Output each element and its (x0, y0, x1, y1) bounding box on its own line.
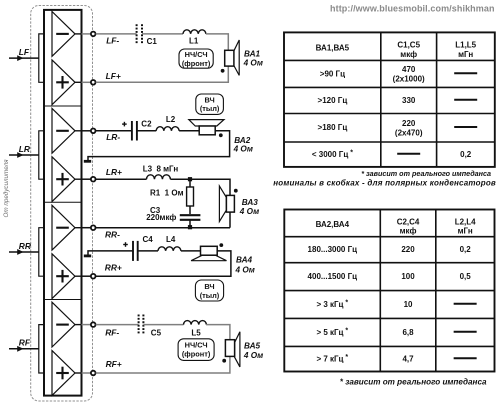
wire BA5 to RF+ (96, 356, 230, 373)
speaker BA3 (midbass, cone left) (219, 186, 234, 222)
output terminal RF- (91, 322, 96, 327)
speaker BA1 (225, 40, 240, 75)
wire C3 to RR- junction (189, 220, 191, 228)
svg-text:220: 220 (401, 245, 415, 254)
inductor L1 (183, 30, 206, 34)
op-amp A4 (LR+) (52, 157, 91, 202)
label BA3 4 Ohm (239, 198, 259, 216)
svg-text:100: 100 (401, 272, 415, 281)
svg-text:180...3000 Гц: 180...3000 Гц (308, 245, 358, 254)
svg-text:220: 220 (402, 119, 416, 128)
svg-text:6,8: 6,8 (402, 328, 414, 337)
wire RF- to C5 (96, 324, 139, 326)
svg-text:L1: L1 (189, 37, 199, 46)
svg-text:10: 10 (404, 300, 413, 309)
output terminal LF+ (91, 80, 96, 85)
table 1: front speakers (284, 32, 495, 167)
svg-text:С1,С5: С1,С5 (397, 41, 420, 50)
chassis bar (LR return) (84, 160, 91, 163)
polarity dot BA5 (222, 359, 226, 363)
svg-text:мкф: мкф (400, 50, 417, 59)
svg-text:ВА2,ВА4: ВА2,ВА4 (316, 220, 350, 229)
svg-text:C1: C1 (147, 37, 158, 46)
channel pair divider 1 (44, 105, 82, 107)
svg-text:C5: C5 (151, 328, 162, 337)
label BA2 4 Ohm (233, 136, 253, 154)
svg-text:(фронт): (фронт) (182, 59, 211, 68)
svg-text:LF-: LF- (106, 36, 119, 46)
svg-text:400...1500 Гц: 400...1500 Гц (308, 272, 358, 281)
wire C2 to L2 (137, 130, 156, 132)
svg-text:>90 Гц: >90 Гц (320, 69, 345, 78)
svg-text:(фронт): (фронт) (182, 350, 211, 359)
svg-text:LF+: LF+ (106, 71, 121, 81)
speaker BA5 (cone right) (225, 332, 240, 367)
output terminal RF+ (91, 371, 96, 376)
inductor L3 (147, 175, 171, 179)
svg-text:L2,L4: L2,L4 (455, 217, 476, 226)
svg-text:мГн: мГн (458, 227, 473, 236)
svg-text:номиналы в скобках - для поляр: номиналы в скобках - для полярных конден… (273, 179, 496, 188)
polarity dot BA3 (234, 189, 238, 193)
channel pair divider 3 (44, 299, 82, 301)
output terminal LR- (91, 129, 96, 134)
capacitor C2 polarized (122, 121, 137, 141)
svg-text:L3 8 мГн: L3 8 мГн (143, 165, 179, 174)
annotation box НЧ/СЧ (фронт) front (179, 49, 213, 68)
chassis bar (RR return) (84, 254, 91, 257)
inductor L5 (184, 321, 207, 325)
wire BA2 return to chassis stub (88, 131, 230, 161)
speaker BA4 (tweeter, cone down) (191, 246, 226, 260)
input wire+arrow LF (9, 55, 39, 61)
svg-text:0,5: 0,5 (460, 272, 472, 281)
svg-text:(2x1000): (2x1000) (393, 75, 425, 84)
svg-text:RF-: RF- (105, 328, 119, 338)
wire C1 to L1 (142, 33, 183, 35)
svg-text:НЧ/СЧ: НЧ/СЧ (185, 341, 208, 350)
op-amp A8 (RF+) (52, 351, 91, 396)
svg-text:220мкф: 220мкф (146, 213, 176, 222)
wire L5 to BA5 (206, 325, 230, 340)
wire node A to R1 (189, 179, 191, 187)
wire C4 to L4 (138, 250, 158, 252)
svg-text:330: 330 (402, 96, 416, 105)
wire BA3 to RR- (229, 212, 231, 228)
svg-text:* зависит от реального импедан: * зависит от реального импеданса (340, 377, 487, 386)
svg-text:мГн: мГн (458, 50, 473, 59)
output terminal LR+ (91, 177, 96, 182)
svg-text:4 Ом: 4 Ом (233, 145, 253, 154)
svg-text:RR+: RR+ (105, 263, 122, 273)
output terminal LF- (91, 32, 96, 37)
svg-text:R1 1 Ом: R1 1 Ом (150, 189, 184, 198)
wire LF- to C1 (96, 33, 137, 35)
wire C5 to L5 (143, 324, 183, 326)
junction node B on RR- (188, 225, 192, 229)
svg-text:RR: RR (19, 241, 31, 251)
svg-text:LR: LR (19, 144, 30, 154)
wire L4 to BA4 (181, 250, 201, 252)
svg-text:RF+: RF+ (106, 359, 122, 369)
input bracket RF (39, 325, 44, 373)
annotation box ВЧ (тыл) rear 1 (196, 94, 224, 114)
input bracket LR (39, 131, 44, 179)
svg-text:LR+: LR+ (106, 167, 122, 177)
chassis stub wire (RR) (88, 251, 133, 255)
op-amp A5 (RR-) (52, 205, 91, 250)
svg-text:ВА3: ВА3 (242, 198, 259, 207)
input wire+arrow RR (9, 249, 39, 255)
input wire+arrow LR (9, 152, 39, 158)
wire L3 to BA3 (170, 179, 230, 195)
capacitor C3 (180, 215, 201, 220)
svg-text:4 Ом: 4 Ом (243, 59, 263, 68)
svg-text:L2: L2 (166, 115, 176, 124)
label BA4 4 Ohm (235, 256, 255, 275)
capacitor C4 polarized (123, 241, 138, 261)
svg-text:RF: RF (19, 338, 31, 348)
label C3 220uF (146, 206, 176, 222)
output terminal RR+ (91, 274, 96, 279)
svg-text:4,7: 4,7 (402, 354, 414, 363)
svg-text:4 Ом: 4 Ом (235, 266, 255, 275)
table 2: rear speakers (284, 210, 494, 372)
op-amp A2 (LF+) (52, 60, 91, 105)
wire L2 to BA2 (179, 130, 199, 132)
wire BA1 to LF+ (96, 66, 229, 82)
annotation box ВЧ (тыл) rear 2 (195, 280, 223, 301)
svg-text:>120 Гц: >120 Гц (318, 96, 348, 105)
svg-text:ВА1: ВА1 (244, 49, 261, 58)
polarity dot BA1 (221, 69, 225, 73)
svg-text:470: 470 (402, 65, 416, 74)
capacitor C5 (optional, dashed) (139, 315, 144, 334)
wire BA4 to RR+ (96, 251, 231, 276)
op-amp A7 (RF-) (52, 302, 91, 347)
svg-text:L4: L4 (166, 235, 176, 244)
svg-text:* зависит от реального импедан: * зависит от реального импеданса (361, 169, 491, 178)
input bracket LF (39, 34, 44, 82)
input wire+arrow RF (9, 346, 39, 352)
svg-text:ВА2: ВА2 (234, 136, 251, 145)
inductor L2 (156, 127, 179, 131)
annotation box НЧ/СЧ (фронт) front 2 (178, 339, 214, 361)
polarity dot BA2 (219, 133, 223, 137)
resistor R1 (187, 187, 194, 206)
inductor L4 (158, 247, 181, 251)
svg-text:LR-: LR- (106, 132, 120, 142)
svg-text:4 Ом: 4 Ом (243, 351, 263, 360)
svg-text:RR-: RR- (105, 230, 120, 240)
svg-text:(тыл): (тыл) (200, 291, 220, 300)
svg-text:мкф: мкф (400, 227, 417, 236)
capacitor C1 (optional, dashed) (137, 24, 142, 43)
junction node A (188, 177, 192, 181)
svg-text:ВА4: ВА4 (236, 256, 253, 265)
wire RR- (96, 227, 230, 229)
wire LR+ to L3 (96, 178, 147, 180)
svg-text:http://www.bluesmobil.com/shik: http://www.bluesmobil.com/shikhman (330, 3, 495, 13)
wire R1 to C3 (189, 206, 191, 214)
channel pair divider 2 (44, 201, 82, 203)
label BA5 4 Ohm (243, 341, 263, 360)
wire L1 to BA1 (206, 34, 228, 50)
svg-text:С2,С4: С2,С4 (397, 217, 420, 226)
svg-text:C2: C2 (141, 120, 152, 129)
amplifier block U1 (44, 10, 82, 396)
svg-text:0,2: 0,2 (460, 245, 472, 254)
op-amp A6 (RR+) (52, 254, 91, 299)
input bracket RR (39, 228, 44, 277)
amplifier enclosure (dashed case) (31, 6, 93, 402)
svg-text:ВА1,ВА5: ВА1,ВА5 (316, 43, 350, 52)
svg-text:ВА5: ВА5 (244, 341, 261, 350)
polarity dot BA4 (219, 243, 223, 247)
svg-text:0,2: 0,2 (460, 150, 472, 159)
svg-text:L1,L5: L1,L5 (455, 41, 476, 50)
op-amp A1 (LF-) (52, 12, 91, 57)
svg-text:4 Ом: 4 Ом (239, 207, 259, 216)
svg-text:От предусилителя: От предусилителя (2, 159, 10, 218)
output terminal RR- (91, 225, 96, 230)
svg-text:ВЧ: ВЧ (204, 282, 214, 291)
svg-text:(2x470): (2x470) (395, 128, 423, 137)
label BA1 4 Ohm (243, 49, 263, 67)
svg-text:LF: LF (19, 47, 30, 57)
speaker BA2 (tweeter, cone up) (189, 120, 224, 135)
svg-text:L5: L5 (191, 328, 201, 337)
wire LR- to C2 (96, 130, 132, 132)
svg-text:< 3000 Гц *: < 3000 Гц * (312, 149, 353, 158)
svg-text:C4: C4 (143, 235, 154, 244)
svg-text:>180 Гц: >180 Гц (318, 123, 348, 132)
svg-text:(тыл): (тыл) (200, 104, 220, 113)
op-amp A3 (LR-) (52, 108, 91, 153)
